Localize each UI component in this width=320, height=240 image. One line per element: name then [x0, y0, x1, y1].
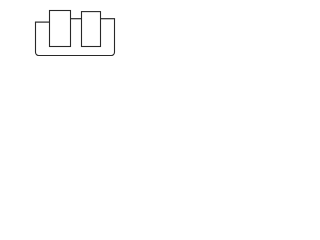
housing top-left shelf [35, 21, 50, 23]
terminal 1 [50, 11, 71, 47]
housing body outline [36, 19, 115, 56]
terminal 2 [82, 12, 101, 47]
housing top-right shelf [101, 18, 116, 20]
wire bridge between terminals [71, 18, 82, 20]
